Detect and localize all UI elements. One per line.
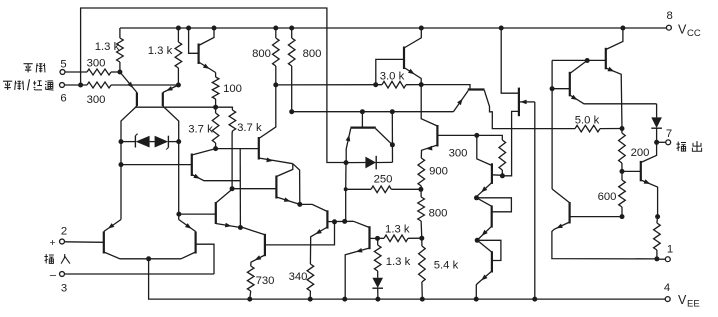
- node output: [654, 140, 659, 145]
- label 800 first: [252, 48, 271, 60]
- transistor Q17 emitter: [453, 91, 468, 112]
- label pin 7: [666, 128, 672, 140]
- transistor Q18 emitter: [520, 100, 535, 105]
- transistor Q10 bar: [403, 47, 405, 70]
- node 800-3 bottom: [419, 236, 424, 241]
- svg-text:300: 300: [449, 147, 468, 159]
- transistor Q6 base: [196, 244, 214, 274]
- wire 3.0k node down: [421, 85, 437, 126]
- wire v392: [391, 112, 393, 163]
- node VEE 730: [247, 297, 252, 302]
- transistor Q5 collector: [104, 252, 181, 259]
- transistor Q15 bar: [326, 210, 328, 228]
- transistor Q3b collector: [163, 106, 179, 220]
- node Q8 base node: [230, 186, 235, 191]
- transistor Q7 bar: [215, 202, 217, 224]
- node Q13base-300 top: [474, 133, 479, 138]
- wire Q19 base line: [552, 59, 606, 61]
- svg-text:5.4 k: 5.4 k: [434, 260, 459, 272]
- transistor Q13 base: [437, 134, 476, 136]
- node terminal1: [654, 256, 659, 261]
- wire diode to v392: [376, 161, 392, 163]
- transistor Q19 emitter: [606, 67, 622, 129]
- node VEE Q14e: [342, 297, 347, 302]
- wire Q18 emitter down: [534, 102, 536, 299]
- label 3.7k first: [188, 124, 213, 136]
- resistor 5.4k: [419, 238, 426, 299]
- label 100: [223, 83, 242, 95]
- resistor 3.7k second: [216, 107, 236, 189]
- label 5.0k: [575, 114, 600, 126]
- transistor Q22 emitter: [552, 222, 657, 259]
- wire VCC rail (pin 8): [120, 27, 666, 29]
- label VEE: [678, 293, 700, 310]
- node comp emitter: [344, 160, 349, 165]
- svg-text:2: 2: [61, 226, 67, 238]
- svg-text:100: 100: [223, 83, 242, 95]
- svg-text:800: 800: [303, 48, 322, 60]
- transistor Q20 collector: [570, 61, 587, 74]
- node Q7 emitter node: [238, 225, 243, 230]
- node Q7 base tap: [176, 212, 181, 217]
- node VCC Q18c: [499, 26, 504, 31]
- transistor Q22 collector: [552, 189, 570, 203]
- svg-text:1: 1: [667, 244, 673, 256]
- transistor Q25 bar: [491, 251, 493, 272]
- transistor Q9 emitter: [259, 158, 293, 164]
- label 200: [631, 147, 650, 159]
- transistor Q3b bar: [162, 93, 164, 107]
- wire Q9 base line: [216, 148, 259, 150]
- transistor Q23 collector: [492, 174, 503, 177]
- transistor Q8 collector: [276, 164, 292, 177]
- transistor Q10 collector: [404, 26, 424, 49]
- resistor 340: [307, 264, 314, 299]
- label 1.3k fourth: [385, 224, 410, 236]
- node 250 right: [418, 187, 423, 192]
- label 平衡: [0, 0, 1, 1]
- terminal pin 1: [657, 257, 670, 262]
- transistor Q2 emitter: [120, 72, 137, 93]
- transistor Q12 collector: [376, 129, 393, 145]
- resistor 300 (bottom, pin6): [87, 82, 178, 88]
- transistor Q4 collector: [192, 149, 216, 155]
- svg-text:8: 8: [667, 10, 673, 22]
- transistor Q6 emitter: [179, 220, 196, 232]
- transistor Q9 collector: [259, 85, 276, 139]
- node diode row left: [119, 139, 124, 144]
- label 1.3k second: [148, 45, 173, 57]
- node sink B: [475, 238, 480, 243]
- node diode row right: [176, 139, 181, 144]
- svg-text:340: 340: [289, 271, 308, 283]
- svg-text:3: 3: [61, 283, 67, 295]
- resistor 100: [212, 73, 219, 108]
- transistor Q17 bar: [468, 88, 485, 90]
- transistor Q21 emitter: [641, 179, 658, 216]
- transistor Q18 collector: [501, 28, 519, 93]
- node 1.3k-second bottom: [176, 83, 181, 88]
- svg-text:6: 6: [60, 93, 66, 105]
- resistor 600: [619, 171, 626, 216]
- transistor Q19 collector: [606, 28, 623, 50]
- diode D2 (points right): [155, 136, 169, 150]
- transistor Q21 base: [622, 170, 641, 172]
- resistor 1.3k (left): [117, 28, 124, 72]
- svg-text:1.3 k: 1.3 k: [95, 41, 120, 53]
- svg-text:200: 200: [631, 147, 650, 159]
- node 800-2 bottom: [289, 109, 294, 114]
- svg-text:5: 5: [60, 59, 66, 71]
- svg-text:CC: CC: [687, 28, 701, 39]
- transistor Q12 base: [361, 112, 363, 128]
- diode D6 (points down): [651, 117, 662, 142]
- node 300-3 bottom: [500, 173, 505, 178]
- svg-text:–: –: [50, 269, 57, 281]
- transistor Q12 emitter: [346, 129, 351, 163]
- svg-text:800: 800: [429, 208, 448, 220]
- svg-text:800: 800: [252, 48, 271, 60]
- transistor Q25 collector diag: [477, 240, 492, 252]
- transistor Q24 emitter: [478, 226, 492, 239]
- resistor 800 first: [273, 28, 280, 85]
- label 800 second: [303, 48, 322, 60]
- transistor Q3b emitter: [163, 85, 179, 93]
- transistor Q19 bar: [605, 48, 607, 70]
- node line111 v392: [390, 109, 395, 114]
- wire Q8 base: [232, 188, 276, 190]
- node input common: [146, 256, 151, 261]
- transistor Q7 emitter: [216, 223, 241, 228]
- svg-text:730: 730: [256, 275, 275, 287]
- node sink A: [474, 195, 479, 200]
- label 平衡 strokes: [24, 63, 46, 72]
- node 200 bottom: [620, 169, 625, 174]
- wire emitter-follower junction line: [239, 149, 241, 228]
- label 输出 strokes: [676, 141, 701, 151]
- node 5.0k-200: [620, 126, 625, 131]
- node mirror top: [297, 202, 302, 207]
- transistor Q23 emitter: [477, 183, 492, 197]
- resistor 1.3k fourth: [378, 235, 422, 242]
- wire 800-1 to 3.0k: [276, 84, 382, 86]
- resistor 250: [346, 186, 421, 193]
- wire comp to diode: [346, 162, 365, 164]
- node 100 bottom: [213, 105, 218, 110]
- node VCC 800-1: [273, 26, 278, 31]
- resistor 3.7k first: [212, 107, 219, 148]
- label 300 third: [449, 147, 468, 159]
- svg-text:1.3 k: 1.3 k: [148, 45, 173, 57]
- transistor Q10 base: [376, 59, 404, 84]
- transistor Q1 emitter: [199, 62, 216, 73]
- wire common base line: [135, 106, 216, 108]
- svg-text:EE: EE: [687, 299, 700, 310]
- node q14c b: [342, 219, 347, 224]
- svg-text:V: V: [678, 293, 687, 307]
- wire q19 base vert: [551, 60, 553, 189]
- transistor Q16 emitter: [251, 255, 265, 266]
- node VEE 5.4k: [420, 297, 425, 302]
- label 5.4k: [434, 260, 459, 272]
- node Q21 emitter: [655, 214, 660, 219]
- transistor Q17 collector: [484, 90, 575, 128]
- svg-text:1.3 k: 1.3 k: [385, 224, 410, 236]
- node Q12 collector junction: [390, 142, 395, 147]
- transistor Q20 bar: [569, 72, 571, 97]
- node VCC 1.3k-2: [176, 26, 181, 31]
- label 3.7k second: [237, 122, 262, 134]
- node q14c a: [332, 219, 337, 224]
- label 300 bottom: [87, 94, 106, 106]
- terminal pin 3: [60, 272, 214, 277]
- node VEE d5: [375, 297, 380, 302]
- label 730: [256, 275, 275, 287]
- resistor 5.0k: [575, 125, 622, 132]
- label 300 top: [87, 58, 106, 70]
- transistor Q14 bar: [368, 226, 370, 249]
- node left collector tap: [119, 162, 124, 167]
- transistor Q24 collector diag: [477, 198, 492, 207]
- label 600: [598, 191, 617, 203]
- transistor Q1 bar: [198, 44, 200, 65]
- svg-text:250: 250: [374, 174, 393, 186]
- label pin 1: [667, 244, 673, 256]
- transistor Q23 base: [477, 135, 492, 165]
- node 250 corner: [344, 187, 348, 191]
- transistor Q10 emitter: [404, 68, 421, 85]
- wire diode row: [121, 141, 179, 143]
- transistor Q20 base: [552, 88, 570, 90]
- resistor 1.3k fifth: [374, 238, 381, 277]
- label 3.0k: [380, 71, 405, 83]
- transistor Q9 bar: [258, 137, 260, 160]
- resistor 800 third: [418, 189, 425, 238]
- node VCC 800-2: [289, 26, 294, 31]
- node VCC Q19c: [620, 26, 625, 31]
- label pin 3: [61, 283, 67, 295]
- resistor 730: [247, 266, 254, 299]
- label minus: [50, 269, 57, 281]
- terminal pin 4: [665, 297, 670, 302]
- transistor Q5 emitter: [104, 220, 121, 232]
- transistor Q16 collector: [241, 227, 265, 235]
- transistor Q15 collector: [300, 204, 328, 211]
- transistor Q2 bar: [136, 93, 138, 107]
- wire to output diode: [656, 104, 658, 118]
- transistor Q14 emitter: [345, 248, 369, 299]
- transistor Q12 bar: [350, 126, 375, 128]
- terminal pin 2: [60, 239, 104, 244]
- label 800 third: [429, 208, 448, 220]
- terminal pin 5: [60, 70, 87, 75]
- label pin 8: [667, 10, 673, 22]
- resistor 1.3k (second): [175, 28, 182, 85]
- svg-text:3.7 k: 3.7 k: [237, 122, 262, 134]
- node VEE Q18e: [532, 297, 537, 302]
- svg-text:300: 300: [87, 94, 106, 106]
- wire second-stage base line: [292, 111, 454, 113]
- node 1.3k-left bottom: [117, 70, 122, 75]
- resistor 300 (top, pin5): [87, 69, 120, 75]
- label 输入: [0, 0, 1, 1]
- wire VEE rail (pin 4): [149, 259, 665, 299]
- node 3.0k left: [373, 82, 378, 87]
- transistor Q4 bar: [191, 154, 193, 177]
- svg-text:300: 300: [87, 58, 106, 70]
- label 340: [289, 271, 308, 283]
- transistor Q22 bar: [568, 202, 570, 224]
- transistor Q13 emitter: [421, 145, 437, 158]
- resistor 200: [619, 129, 626, 172]
- svg-text:1.3 k: 1.3 k: [386, 256, 411, 268]
- node 600 bottom: [620, 214, 625, 219]
- node 3.7k1 bottom: [213, 146, 218, 151]
- transistor Q5 bar (input left): [103, 232, 105, 254]
- wire Q4 base line: [121, 164, 192, 166]
- wire Q16 base path: [266, 222, 335, 245]
- label VCC: [678, 23, 701, 40]
- resistor 900: [418, 158, 425, 189]
- wire Q14 collector line: [327, 220, 353, 222]
- node VEE sink: [474, 297, 479, 302]
- transistor Q22 base: [570, 216, 622, 218]
- label pin 4: [664, 282, 670, 294]
- transistor Q17 base: [421, 85, 470, 90]
- label 平衡/选通 strokes: [3, 79, 54, 90]
- terminal pin 6: [60, 83, 87, 88]
- svg-text:7: 7: [666, 128, 672, 140]
- diode D1 (points left): [135, 134, 149, 148]
- label plus: [50, 237, 56, 249]
- transistor Q16 bar: [264, 234, 266, 256]
- transistor Q8 bar: [275, 176, 277, 199]
- resistor 3.0k: [382, 81, 421, 88]
- wire fork to mirror: [293, 164, 300, 205]
- resistor RE out: [654, 217, 661, 259]
- svg-text:V: V: [678, 23, 687, 37]
- label 输出: [0, 0, 1, 1]
- node Q20 collector: [585, 58, 590, 63]
- transistor Q1 collector: [199, 26, 217, 46]
- transistor Q13 bar: [436, 125, 438, 147]
- svg-text:3.7 k: 3.7 k: [188, 124, 213, 136]
- label pin 5: [60, 59, 66, 71]
- label 250: [374, 174, 393, 186]
- wire to 300: [477, 135, 503, 140]
- terminal pin 8: [666, 25, 671, 30]
- transistor Q25 emitter: [476, 271, 492, 299]
- transistor Q6 bar (input right): [195, 232, 197, 254]
- terminal pin 7: [657, 140, 671, 145]
- transistor Q18 bar: [518, 88, 520, 117]
- label 1.3k left: [95, 41, 120, 53]
- node VEE 340: [308, 297, 313, 302]
- transistor Q20 emitter: [570, 95, 657, 104]
- wire comp node down: [345, 163, 347, 222]
- transistor Q1 base: [186, 26, 199, 54]
- label 1.3k fifth: [386, 256, 411, 268]
- node 800-1 bottom: [273, 82, 278, 87]
- transistor Q14 collector: [354, 221, 370, 227]
- transistor Q4 emitter: [192, 174, 240, 181]
- transistor Q24 bar: [491, 205, 493, 227]
- svg-text:900: 900: [429, 166, 448, 178]
- resistor 300 third: [499, 140, 506, 176]
- wire loop1: [477, 198, 512, 212]
- svg-text:+: +: [50, 237, 56, 249]
- transistor Q8 emitter: [276, 197, 299, 204]
- node pin6-strobe junction: [78, 83, 83, 88]
- label 输入 strokes: [44, 254, 70, 264]
- wire loop2: [477, 240, 501, 260]
- diode D4 (points right): [365, 156, 376, 170]
- label pin 2: [61, 226, 67, 238]
- label pin 6: [60, 93, 66, 105]
- node Q14 base node: [375, 236, 380, 241]
- svg-text:5.0 k: 5.0 k: [575, 114, 600, 126]
- transistor Q7 collector: [216, 189, 232, 203]
- svg-text:600: 600: [598, 191, 617, 203]
- transistor Q15 emitter: [310, 227, 327, 264]
- svg-text:4: 4: [664, 282, 670, 294]
- label 900: [429, 166, 448, 178]
- transistor Q14 base: [370, 237, 378, 239]
- wire Q7 base: [179, 213, 216, 215]
- transistor Q6 collector: [181, 252, 196, 259]
- transistor Q21 bar: [640, 161, 642, 181]
- transistor Q23 bar: [491, 163, 493, 184]
- node Q20 base: [550, 86, 555, 91]
- node 3.0k right: [419, 82, 424, 87]
- transistor Q2 collector: [121, 106, 137, 220]
- resistor 800 second: [288, 28, 295, 112]
- transistor Q18 base: [502, 111, 519, 175]
- wire balance-strobe loop (pin 6 to compensation node): [81, 8, 346, 163]
- svg-text:3.0 k: 3.0 k: [380, 71, 405, 83]
- node line111 Q12base: [360, 109, 365, 114]
- diode D5 (points down): [372, 278, 383, 299]
- transistor Q21 collector: [641, 142, 657, 162]
